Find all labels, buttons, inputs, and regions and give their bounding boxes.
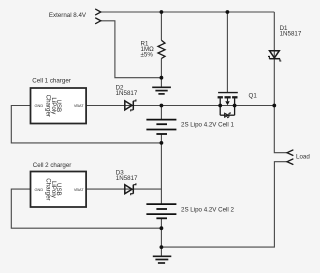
wire R1 top lead (160, 12, 162, 40)
node rail / D1 / load (272, 104, 276, 108)
bulk stem (227, 98, 229, 101)
transistor Q1 (P-MOSFET) (218, 93, 238, 116)
bulk arrow (225, 101, 229, 105)
wire D1 column: top rail corner down through D1 to load pin 1 (274, 12, 287, 153)
node bottom rail / ground (160, 245, 164, 249)
wire bottom rail to load pin 2 (161, 162, 287, 247)
node battery1 bottom / charger1 return (160, 141, 164, 145)
channel segments (218, 96, 223, 98)
battery BT1 2S Lipo 4.2V Cell 1 (146, 120, 176, 134)
wire battery2 bottom column to bottom ground node (160, 218, 162, 256)
diode D1 1N5817 (268, 51, 281, 61)
ground (under R1 node) (152, 87, 171, 94)
resistor R1 (158, 40, 165, 58)
wire battery1 bottom to battery2 top (series link) (160, 134, 162, 204)
node Q1 drain on rail (218, 104, 222, 108)
svg-text:VBAT: VBAT (74, 187, 84, 192)
connector J1 External pin 2 (96, 18, 101, 24)
svg-text:±5%: ±5% (141, 51, 154, 58)
wire cell1 charger GND return loop (11, 106, 161, 143)
node top rail / Q1 gate (226, 10, 230, 14)
wire charger2 VBAT row through D3 to mid node (86, 188, 161, 190)
wire top rail from External pin 1 to D1 (101, 11, 274, 13)
svg-text:External 8.4V: External 8.4V (49, 12, 87, 19)
diode D2 1N5817 (125, 99, 136, 111)
node Q1 source on rail (233, 104, 237, 108)
svg-text:Charger: Charger (44, 178, 51, 200)
diode D3 1N5817 (125, 183, 136, 195)
wire cell2 charger GND return loop (11, 189, 161, 228)
battery BT2 2S Lipo 4.2V Cell 2 (146, 204, 176, 218)
wire External pin 2 to ground node (101, 21, 162, 78)
label USB LiPoly Charger (cell 1, rotated) (44, 95, 62, 117)
wire main switched rail row 1 (charger1 VBAT through D2, Q1) (86, 105, 274, 107)
svg-text:VBAT: VBAT (74, 103, 84, 108)
ground (bottom, under battery stack) (153, 256, 172, 263)
svg-text:GND: GND (35, 103, 44, 108)
svg-text:GND: GND (35, 187, 44, 192)
label USB LiPoly Charger (cell 2, rotated) (44, 178, 62, 200)
svg-text:Charger: Charger (44, 95, 51, 117)
connector Load pin 2 (287, 159, 293, 164)
gate bar (218, 92, 238, 94)
node battery2 bottom / charger2 return (160, 226, 164, 230)
node top rail / R1 (160, 10, 164, 14)
source leg (234, 98, 236, 115)
wire ground node stub to ground symbol (160, 78, 162, 88)
svg-text:1N5817: 1N5817 (116, 90, 138, 97)
svg-text:Load: Load (296, 154, 310, 161)
svg-text:Cell 1 charger: Cell 1 charger (32, 78, 71, 85)
svg-text:Q1: Q1 (249, 93, 258, 100)
body bottom wire (220, 114, 234, 116)
charger U1 box (Cell 1 charger) (31, 88, 87, 124)
charger U2 box (Cell 2 charger) (31, 172, 87, 208)
svg-text:1N5817: 1N5817 (280, 30, 302, 37)
svg-text:2S Lipo 4.2V Cell 2: 2S Lipo 4.2V Cell 2 (181, 207, 235, 214)
wire R1 bottom lead to ground node (160, 59, 162, 78)
drain leg (219, 98, 221, 115)
node battery1 top (160, 104, 164, 108)
svg-text:2S Lipo 4.2V Cell 1: 2S Lipo 4.2V Cell 1 (181, 122, 235, 129)
wire battery1 top lead (160, 106, 162, 120)
svg-text:Cell 2 charger: Cell 2 charger (33, 162, 72, 169)
svg-text:1N5817: 1N5817 (116, 175, 138, 182)
connector Load pin 1 (287, 150, 293, 155)
wire Q1 gate to top rail (226, 12, 228, 93)
node ground junction (R1 / external negative) (160, 76, 164, 80)
connector J1 External pin 1 (96, 9, 101, 15)
body diode of Q1 (225, 112, 231, 118)
